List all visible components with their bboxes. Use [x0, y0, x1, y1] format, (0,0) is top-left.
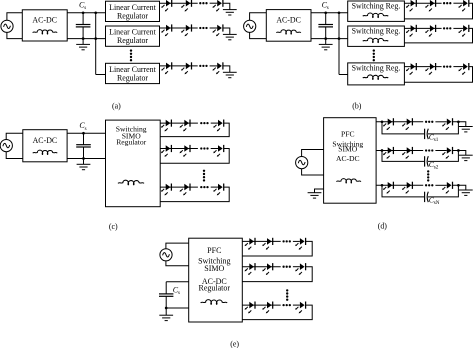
LED 1 of string 3 (e) [245, 302, 255, 314]
LED 2 of string 1 (e) [262, 238, 272, 250]
wire: string 1 return loop (e) [242, 241, 312, 256]
capacitor Cs (c) [76, 133, 91, 158]
LED 2 of string 1 (c) [180, 120, 190, 132]
svg-text:Switching Reg.: Switching Reg. [352, 63, 401, 72]
inductor symbol inside AC-DC (a) [33, 30, 57, 34]
LED 1 of string 2 (c) [161, 145, 171, 157]
ellipsis: more LEDs in string 1 (d) [425, 121, 433, 123]
ellipsis: more output channels (e) [286, 289, 288, 301]
svg-text:SIMO: SIMO [338, 145, 358, 154]
svg-text:(b): (b) [352, 101, 362, 110]
svg-text:s: s [84, 6, 86, 11]
linear current regulator box 1 (a) [106, 1, 160, 21]
ground at end of string 1 (d) [459, 127, 473, 132]
wire: LED string 1 segment 1 (c) [160, 122, 198, 124]
ellipsis: more LEDs in string 2 (a) [199, 27, 208, 29]
wire: string 1 return loop (c) [160, 123, 229, 137]
switching SIMO regulator box (c) [106, 120, 161, 207]
wire: rail to third regulator (b) [339, 74, 348, 76]
node: Cs bottom junction (b) [324, 37, 327, 40]
LED 2 of string 2 (b) [425, 25, 435, 37]
svg-text:AC-DC: AC-DC [32, 16, 57, 25]
subfig d: AC source [296, 157, 308, 169]
wire: string 2 return loop (b) [404, 28, 472, 43]
wire: capacitor branch right 1 (d) [428, 122, 458, 134]
LED 2 of string 2 (d) [402, 147, 412, 159]
ellipsis: more LEDs in string 1 (a) [199, 2, 208, 4]
AC-DC converter box (c) [23, 130, 67, 162]
ellipsis: more LEDs in string 1 (e) [282, 240, 290, 242]
svg-text:(c): (c) [109, 222, 118, 231]
wire: vertical supply rail (a) [95, 13, 97, 75]
svg-text:AC-DC: AC-DC [276, 16, 301, 25]
LED 2 of string 2 (e) [262, 263, 272, 275]
LED 3 of string 2 (d) [442, 147, 452, 159]
node: rail middle junction (a) [94, 37, 97, 40]
LED 1 of string 3 (c) [161, 184, 171, 196]
linear current regulator box 2 (a) [106, 26, 160, 46]
capacitor Cs (b) [318, 13, 333, 39]
wire: string 3 to ground (a) [223, 66, 230, 72]
LED 3 of string 2 (a) [213, 24, 223, 36]
inductor inside PFC SIMO regulator (e) [201, 300, 228, 305]
svg-text:s2: s2 [434, 165, 439, 171]
svg-text:PFC: PFC [341, 130, 355, 139]
inductor inside switching regulator 3 (b) [363, 75, 388, 80]
node: Cs top junction (b) [324, 11, 327, 14]
LED 2 of string 3 (e) [262, 302, 272, 314]
wire: LED string 3 segment 2 (b) [453, 66, 463, 68]
LED 1 of string 3 (a) [161, 62, 171, 74]
wire: capacitor branch left 2 (d) [382, 151, 424, 162]
wire: LED string 1 segment 2 (d) [435, 121, 446, 123]
wire: rail to third regulator (a) [96, 74, 106, 76]
svg-text:Regulator: Regulator [117, 74, 148, 83]
wire: string 1 to ground (a) [223, 3, 230, 9]
wire: string 1 return loop (b) [404, 3, 472, 19]
ellipsis: more regulator channels (a) [130, 49, 132, 61]
wire: LED string 3 segment 2 (e) [293, 304, 300, 306]
LED 3 of string 2 (b) [458, 25, 468, 37]
wire: LED string 1 segment 1 (d) [376, 121, 423, 123]
wire: box to ground stub (d) [315, 189, 324, 193]
ground at end of string 1 (a) [223, 10, 237, 15]
wire: capacitor branch left 3 (d) [382, 185, 424, 197]
capacitor Cs1 plates (d) [425, 129, 429, 139]
svg-text:s1: s1 [434, 137, 439, 143]
LED 3 of string 1 (d) [442, 118, 452, 130]
svg-text:sN: sN [434, 200, 440, 206]
node: Cs top junction (a) [82, 11, 85, 14]
wire: positive rail (a) [67, 12, 105, 14]
wire: AC source top to AC-DC (c) [6, 133, 23, 139]
node: string 2 cathode junction (d) [457, 149, 460, 152]
ground at end of string 3 (d) [459, 190, 473, 195]
wire: LED string 3 segment 1 (d) [376, 184, 423, 186]
capacitor Cs (a) [76, 13, 91, 39]
ground below Cs (b) [319, 44, 333, 49]
wire: LED string 1 segment 2 (e) [293, 240, 300, 242]
LED 1 of string 3 (d) [383, 182, 393, 194]
svg-text:(e): (e) [230, 340, 239, 348]
wire: AC source top to AC-DC input (a) [7, 13, 22, 20]
capacitor CsN plates (d) [425, 192, 429, 202]
LED 2 of string 2 (c) [180, 145, 190, 157]
ellipsis: more LEDs in string 2 (e) [282, 266, 290, 268]
wire: LED string 3 segment 1 (b) [404, 66, 441, 68]
wire: Cs branch bottom (e) [166, 307, 189, 309]
wire: Cs to ground (c) [83, 159, 85, 165]
svg-text:AC-DC: AC-DC [33, 136, 58, 145]
wire: capacitor branch left 1 (d) [382, 122, 424, 134]
wire: LED string 2 segment 1 (a) [160, 27, 198, 29]
wire: vertical supply rail (b) [338, 13, 340, 75]
wire: LED string 1 segment 1 (a) [160, 2, 198, 4]
wire: string 2 return loop (e) [242, 267, 312, 282]
ellipsis: more LEDs in string 3 (c) [200, 186, 209, 188]
node: Cs bottom junction (c) [82, 157, 85, 160]
LED 1 of string 3 (b) [406, 63, 416, 75]
LED 2 of string 1 (b) [425, 0, 435, 12]
wire: capacitor branch right 2 (d) [428, 151, 458, 162]
node: rail middle junction (b) [338, 37, 341, 40]
wire: LED string 2 segment 1 (c) [160, 148, 198, 150]
wire: LED string 2 segment 2 (d) [435, 150, 446, 152]
LED 3 of string 1 (c) [213, 120, 223, 132]
wire: AC source bottom to box (d) [302, 169, 324, 175]
ellipsis: more output channels (c) [203, 170, 205, 182]
subfig e: AC source [160, 249, 172, 261]
svg-text:Regulator: Regulator [117, 11, 148, 20]
wire: return rail (c) [67, 158, 105, 160]
LED 1 of string 2 (d) [383, 147, 393, 159]
ground below Cs (e) [159, 315, 173, 320]
LED 3 of string 2 (e) [295, 263, 305, 275]
wire: LED string 1 segment 1 (b) [404, 2, 441, 4]
LED 1 of string 1 (c) [161, 120, 171, 132]
LED 1 of string 1 (a) [161, 0, 171, 12]
inductor inside switching regulator 2 (b) [363, 38, 388, 43]
AC-DC converter box (a) [22, 10, 67, 41]
wire: LED string 2 segment 1 (b) [404, 27, 441, 29]
LED 3 of string 3 (c) [213, 184, 223, 196]
capacitor Cs (e) [159, 282, 173, 308]
wire: positive rail (b) [311, 12, 348, 14]
LED 2 of string 2 (a) [181, 24, 191, 36]
ellipsis: more output channels (d) [427, 170, 429, 181]
svg-text:Regulator: Regulator [199, 284, 231, 293]
ellipsis: more LEDs in string 2 (b) [443, 27, 451, 29]
inductor symbol inside AC-DC (c) [33, 150, 57, 154]
wire: AC source top to AC-DC (b) [250, 13, 267, 20]
AC-DC converter box (b) [266, 10, 311, 42]
wire: AC source bottom to AC-DC (c) [6, 152, 23, 159]
switching regulator box 2 (b) [348, 26, 405, 46]
inductor symbol inside AC-DC (b) [276, 30, 300, 34]
ellipsis: more LEDs in string 1 (c) [200, 122, 209, 124]
wire: Cs to ground (e) [165, 308, 167, 315]
wire: AC source bottom to box (e) [166, 261, 189, 266]
LED 1 of string 2 (e) [245, 263, 255, 275]
svg-text:(d): (d) [378, 222, 388, 231]
ellipsis: more regulator channels (b) [373, 49, 375, 61]
wire: return rail (b) [311, 38, 348, 40]
subfig a: AC source [1, 20, 13, 32]
inductor inside switching regulator 1 (b) [363, 13, 388, 18]
wire: capacitor branch right 3 (d) [428, 185, 458, 197]
wire: string 2 return loop (c) [160, 149, 229, 164]
wire: AC source bottom to AC-DC (b) [250, 32, 267, 38]
wire: return rail (a) [67, 38, 105, 40]
PFC switching SIMO AC-DC regulator box (e) [189, 238, 243, 322]
subfig c: AC source [0, 140, 12, 152]
node: rail top junction (b) [338, 11, 341, 14]
node: string 2 anode junction (d) [381, 149, 384, 152]
wire: string 1 to ground (d) [453, 122, 466, 127]
svg-text:Switching Reg.: Switching Reg. [352, 1, 401, 10]
LED 3 of string 1 (e) [295, 238, 305, 250]
inductor inside SIMO regulator (c) [118, 180, 144, 185]
svg-text:(a): (a) [112, 101, 121, 110]
ground below Cs (a) [76, 44, 90, 49]
LED 2 of string 1 (a) [181, 0, 191, 12]
LED 2 of string 3 (c) [180, 184, 190, 196]
wire: AC source bottom to AC-DC input (a) [7, 32, 22, 38]
LED 3 of string 1 (a) [213, 0, 223, 12]
wire: LED string 1 segment 2 (b) [453, 2, 463, 4]
LED 3 of string 3 (b) [458, 63, 468, 75]
wire: LED string 2 segment 2 (b) [453, 27, 463, 29]
wire: LED string 3 segment 2 (c) [211, 186, 218, 188]
wire: LED string 2 segment 1 (d) [376, 150, 423, 152]
node: Cs top junction (c) [82, 132, 85, 135]
wire: LED string 3 segment 1 (a) [160, 65, 198, 67]
svg-text:Switching Reg.: Switching Reg. [352, 26, 401, 35]
LED 2 of string 3 (d) [402, 182, 412, 194]
node: string 3 cathode junction (d) [457, 184, 460, 187]
wire: string 3 return loop (b) [404, 67, 472, 83]
wire: string 3 return loop (c) [160, 187, 229, 202]
node: string 1 cathode junction (d) [457, 120, 460, 123]
wire: LED string 2 segment 2 (e) [293, 266, 300, 268]
node: Cs bottom junction (e) [165, 307, 168, 310]
wire: string 2 to ground (a) [223, 28, 230, 34]
LED 1 of string 1 (b) [406, 0, 416, 12]
inductor inside PFC SIMO box (d) [336, 179, 360, 183]
wire: LED string 1 segment 2 (a) [210, 2, 218, 4]
LED 3 of string 3 (e) [295, 302, 305, 314]
subfig b: AC source [244, 20, 256, 32]
ground below Cs (c) [77, 164, 91, 169]
ellipsis: more LEDs in string 3 (a) [199, 65, 208, 67]
wire: LED string 3 segment 1 (e) [242, 304, 280, 306]
LED 2 of string 3 (a) [181, 62, 191, 74]
LED 1 of string 2 (b) [406, 25, 416, 37]
wire: LED string 3 segment 2 (a) [210, 65, 218, 67]
capacitor Cs2 plates (d) [425, 156, 429, 166]
wire: LED string 3 segment 1 (c) [160, 186, 198, 188]
svg-text:s: s [327, 6, 329, 11]
PFC switching SIMO AC-DC box (d) [324, 118, 377, 204]
ellipsis: more LEDs in string 1 (b) [443, 2, 451, 4]
LED 3 of string 1 (b) [458, 0, 468, 12]
ground at end of string 2 (d) [459, 155, 473, 160]
LED 3 of string 2 (c) [213, 145, 223, 157]
wire: LED string 1 segment 2 (c) [211, 122, 218, 124]
svg-text:Regulator: Regulator [117, 36, 148, 45]
switching regulator box 1 (b) [348, 1, 405, 21]
ellipsis: more LEDs in string 2 (c) [200, 147, 209, 149]
LED 2 of string 1 (d) [402, 118, 412, 130]
wire: string 3 return loop (e) [242, 305, 312, 320]
ellipsis: more LEDs in string 3 (b) [443, 65, 451, 67]
wire: AC source top to box (e) [166, 243, 189, 249]
svg-text:s: s [178, 291, 180, 296]
wire: AC source top to box (d) [302, 150, 324, 157]
switching regulator box 3 (b) [348, 63, 405, 85]
wire: positive rail (c) [67, 132, 105, 134]
wire: Cs to ground (a) [82, 39, 84, 45]
ground of PFC box (d) [308, 193, 322, 198]
LED 3 of string 3 (d) [442, 182, 452, 194]
LED 1 of string 1 (d) [383, 118, 393, 130]
wire: string 2 to ground (d) [453, 151, 466, 156]
ground at end of string 2 (a) [223, 34, 237, 39]
svg-text:AC-DC: AC-DC [336, 154, 360, 163]
wire: LED string 1 segment 1 (e) [242, 240, 280, 242]
ellipsis: more LEDs in string 3 (d) [425, 184, 433, 186]
node: string 3 anode junction (d) [381, 184, 384, 187]
wire: LED string 2 segment 2 (c) [211, 148, 218, 150]
wire: LED string 2 segment 2 (a) [210, 27, 218, 29]
ellipsis: more LEDs in string 3 (e) [282, 304, 290, 306]
wire: Cs to ground (b) [325, 39, 327, 45]
node: string 1 anode junction (d) [381, 120, 384, 123]
wire: LED string 2 segment 1 (e) [242, 266, 280, 268]
wire: string 3 to ground (d) [453, 185, 466, 190]
svg-text:s: s [85, 127, 87, 132]
wire: Cs branch top (e) [166, 281, 189, 283]
ground at end of string 3 (a) [223, 72, 237, 77]
ellipsis: more LEDs in string 2 (d) [425, 149, 433, 151]
node: Cs bottom junction (a) [82, 37, 85, 40]
linear current regulator box 3 (a) [106, 63, 160, 83]
node: rail top junction (a) [94, 11, 97, 14]
LED 1 of string 1 (e) [245, 238, 255, 250]
wire: LED string 3 segment 2 (d) [435, 184, 446, 186]
LED 2 of string 3 (b) [425, 63, 435, 75]
LED 3 of string 3 (a) [213, 62, 223, 74]
svg-text:PFC: PFC [207, 246, 221, 255]
svg-text:SIMO: SIMO [204, 264, 224, 273]
svg-text:Regulator: Regulator [116, 137, 146, 146]
LED 1 of string 2 (a) [161, 24, 171, 36]
